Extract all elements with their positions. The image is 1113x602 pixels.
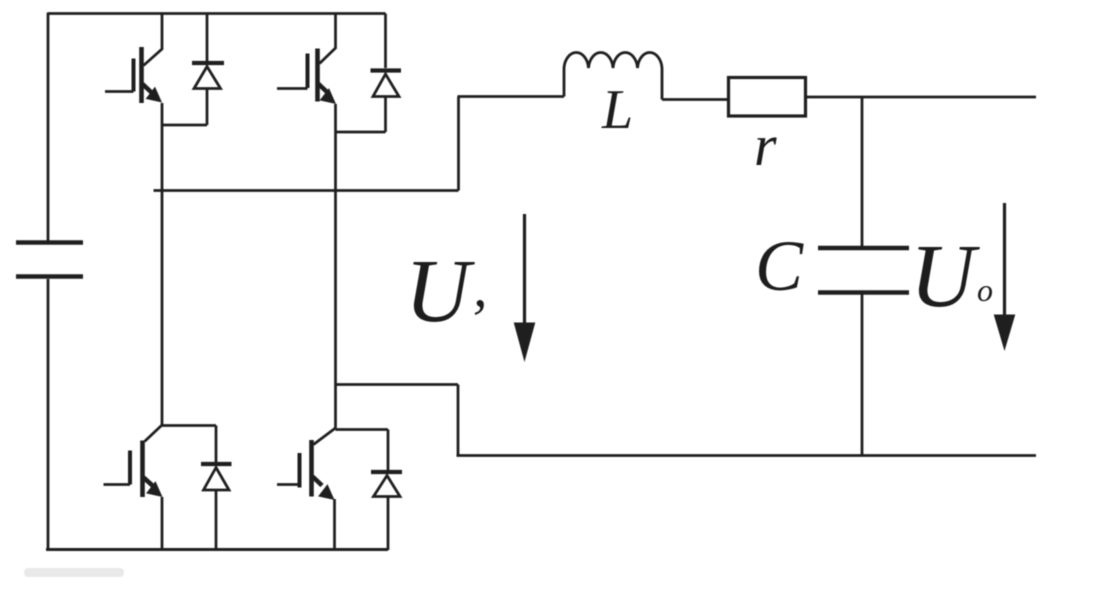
transistor Q3 emitter arrowhead (146, 481, 162, 497)
arrow: Uo voltage arrow (1003, 203, 1006, 320)
diode D3 cathode bar (201, 462, 232, 466)
transistor Q2 emitter arrow (318, 84, 327, 93)
arrow: Ui voltage arrow (523, 214, 526, 330)
svg-text:U: U (910, 227, 980, 326)
svg-text:U: U (405, 242, 475, 341)
wire: Q1 gate lead (105, 90, 134, 93)
wire: output top riser (457, 97, 460, 191)
transistor Q3 body bar (140, 441, 145, 498)
wire: Q2 gate lead (277, 87, 308, 90)
transistor Q1 gate bar (132, 59, 136, 92)
resistor r body (729, 78, 806, 117)
wire: Q4-D4 top link (336, 428, 389, 431)
wire: Q3 gate lead (104, 483, 131, 486)
transistor Q3 emitter arrow (144, 478, 154, 487)
wire: D4 anode lead (387, 497, 390, 551)
wire: D3 anode lead (215, 490, 218, 550)
wire: Q4 emitter lead (333, 499, 336, 550)
transistor Q4 body bar (309, 440, 314, 497)
wire: left DC rail lower segment (47, 279, 50, 550)
diode D1 cathode lead (206, 14, 209, 62)
diode D2 triangle (373, 74, 399, 97)
transistor Q2 gate bar (306, 54, 310, 89)
wire: capacitor C bottom lead (861, 295, 864, 456)
svg-text:L: L (601, 79, 633, 141)
transistor Q3 gate bar (128, 451, 132, 485)
wire: bridge mid rail B (leg2 midpoint to output) (336, 383, 459, 386)
transistor Q1 emitter arrowhead (146, 87, 162, 103)
capacitor C bottom plate (818, 290, 909, 295)
wire: top DC rail (48, 12, 386, 15)
svg-text:C: C (755, 226, 804, 306)
wire: Q4 gate lead (277, 483, 300, 486)
transistor Q3 collector link from leg1 (145, 425, 163, 442)
transistor Q1 collector lead (144, 14, 163, 66)
wire: top output lead to inductor (458, 95, 565, 98)
diode D4 cathode lead (387, 430, 390, 471)
diode D3 cathode lead (215, 426, 218, 463)
transistor Q4 gate bar (298, 453, 302, 488)
transistor Q4 collector link from leg2 (314, 428, 336, 445)
wire: Q1 emitter / leg1 vertical down to Q3 (161, 103, 164, 425)
wire: Q3 emitter lead (161, 497, 164, 550)
diode D4 triangle (374, 476, 401, 497)
wire: capacitor C top lead (861, 97, 864, 246)
scan smudge (faint) (24, 568, 124, 577)
diode D2 cathode bar (371, 68, 402, 72)
capacitor C top plate (818, 246, 909, 251)
transistor Q4 emitter arrowhead (318, 484, 334, 500)
inductor L (564, 53, 662, 100)
transistor Q2 collector lead (320, 14, 336, 64)
transistor Q2 body bar (315, 49, 320, 102)
transistor Q2 emitter arrowhead (320, 88, 336, 104)
transistor Q1 body bar (139, 47, 144, 103)
wire: Q1-D1 bottom link (162, 124, 207, 127)
wire: output bottom riser (457, 385, 460, 456)
wire: resistor to load rail (806, 96, 1037, 99)
capacitor C1 (DC link) bottom plate (16, 274, 83, 279)
wire: D1 anode lead (206, 89, 209, 126)
diode D4 cathode bar (371, 470, 402, 474)
wire: left DC rail upper segment (47, 13, 50, 242)
diode D2 cathode lead (384, 14, 387, 69)
wire: Q2-D2 bottom link (336, 131, 386, 134)
transistor Q4 emitter arrow (313, 477, 323, 486)
wire: D2 anode lead (384, 97, 387, 133)
wire: bottom output rail (457, 454, 1037, 457)
diode D3 triangle (204, 468, 230, 491)
wire: Q2 emitter / leg2 vertical down to Q4 (334, 104, 337, 428)
wire: bottom DC rail (46, 548, 388, 551)
wire: Q3-D3 top link (162, 424, 216, 427)
wire: bridge mid rail A (leg1 midpoint to output) (154, 189, 459, 192)
capacitor C1 (DC link) top plate (16, 240, 83, 245)
diode D1 cathode bar (192, 61, 224, 65)
diode D1 triangle (194, 67, 221, 89)
transistor Q1 emitter arrow (143, 84, 153, 93)
wire: inductor to resistor (662, 98, 728, 101)
svg-text:o: o (977, 272, 993, 308)
svg-text:r: r (754, 113, 777, 178)
svg-text:,: , (473, 254, 488, 319)
